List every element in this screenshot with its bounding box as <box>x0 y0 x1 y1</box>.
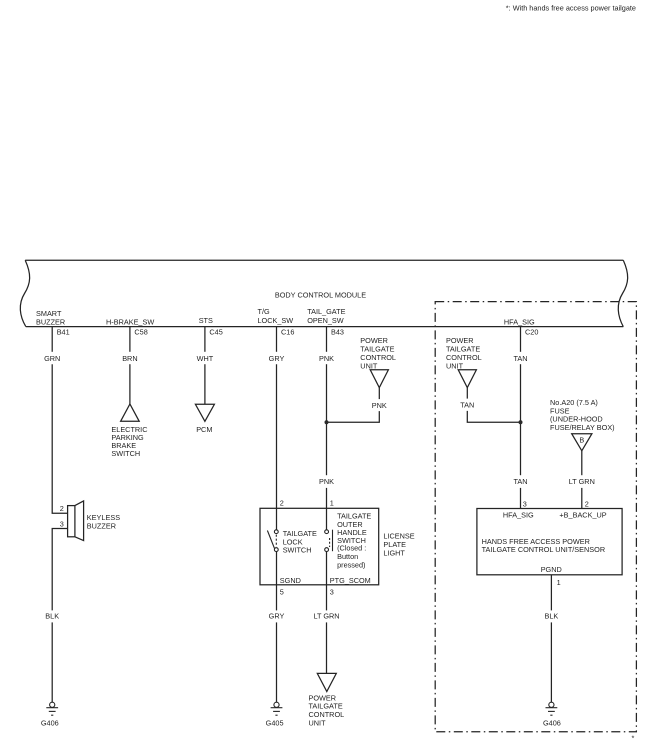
svg-text:GRY: GRY <box>269 354 285 363</box>
license plate light box <box>260 508 379 585</box>
svg-text:BLK: BLK <box>545 611 559 620</box>
wire W8 segment into HFA box <box>581 488 583 509</box>
svg-text:TAN: TAN <box>460 401 474 410</box>
wire W4 lower segment to ground <box>276 622 278 702</box>
wire W3 lower segment <box>204 364 206 404</box>
body control module band outline <box>20 260 627 327</box>
junction dot on W6 <box>519 420 523 424</box>
svg-text:SGND: SGND <box>280 576 301 585</box>
wire W1 segment down to keyless buzzer pin 2 <box>52 364 67 513</box>
svg-text:G406: G406 <box>41 719 59 728</box>
svg-text:GRY: GRY <box>269 611 285 620</box>
svg-text:2: 2 <box>585 499 589 508</box>
off-page triangle to electric parking brake switch <box>121 404 140 421</box>
svg-text:3: 3 <box>523 499 527 508</box>
tailgate outer handle switch contacts <box>325 530 333 552</box>
svg-text:OPEN_SW: OPEN_SW <box>307 316 344 325</box>
hands free access power tailgate control unit box <box>477 509 622 575</box>
ground G406 left symbol <box>46 702 58 715</box>
svg-text:BUZZER: BUZZER <box>36 317 65 326</box>
svg-text:B: B <box>579 436 584 445</box>
svg-text:TAN: TAN <box>513 477 527 486</box>
wire W4 segment down to license plate light box <box>276 364 278 530</box>
branch wire to junction <box>327 411 380 422</box>
svg-text:PNK: PNK <box>319 354 334 363</box>
svg-text:pressed): pressed) <box>337 561 365 570</box>
svg-text:TAILGATE CONTROL UNIT/SENSOR: TAILGATE CONTROL UNIT/SENSOR <box>482 545 606 554</box>
wire W5 lower segment to triangle <box>326 622 328 673</box>
svg-text:2: 2 <box>60 504 64 513</box>
wire W6 upper segment from C20 <box>520 327 522 352</box>
branch wire from triangle <box>378 388 380 400</box>
wire W5 segment to junction <box>326 364 328 475</box>
svg-text:UNIT: UNIT <box>309 718 327 727</box>
wire W5 segment into license plate light box <box>326 488 328 530</box>
svg-text:LOCK_SW: LOCK_SW <box>258 316 294 325</box>
wire W9 lower segment to ground <box>550 622 552 702</box>
svg-text:BLK: BLK <box>45 611 59 620</box>
wire W3 upper segment from C45 <box>204 327 206 352</box>
svg-text:LT GRN: LT GRN <box>313 611 339 620</box>
svg-text:PCM: PCM <box>196 425 212 434</box>
svg-text:*: * <box>632 734 635 743</box>
switch internal wire right <box>326 552 328 585</box>
wire W9 below HFA box <box>550 575 552 611</box>
wire W1 lower segment to ground <box>51 622 53 702</box>
tailgate lock switch contacts <box>267 530 278 552</box>
svg-text:BUZZER: BUZZER <box>87 522 116 531</box>
wire W5 upper segment from B43 <box>326 327 328 352</box>
svg-text:G406: G406 <box>543 719 561 728</box>
svg-text:FUSE/RELAY BOX): FUSE/RELAY BOX) <box>550 423 615 432</box>
off-page triangle to PCM <box>195 404 214 421</box>
svg-text:B43: B43 <box>331 327 344 336</box>
wire W1 segment from buzzer pin 3 down <box>52 529 67 611</box>
svg-text:STS: STS <box>199 316 213 325</box>
svg-text:PNK: PNK <box>372 401 387 410</box>
ground G405 symbol <box>271 702 283 715</box>
svg-text:B41: B41 <box>57 327 70 336</box>
svg-text:1: 1 <box>557 578 561 587</box>
svg-text:HFA_SIG: HFA_SIG <box>503 511 534 520</box>
wire W6 segment into HFA box <box>520 488 522 509</box>
junction dot on W5 <box>325 420 329 424</box>
svg-text:5: 5 <box>280 588 284 597</box>
wire W1 upper segment from B41 <box>51 327 53 352</box>
svg-text:2: 2 <box>280 498 284 507</box>
svg-text:C45: C45 <box>209 327 222 336</box>
ground G406 right symbol <box>546 702 558 715</box>
svg-text:C16: C16 <box>281 327 294 336</box>
branch wire from triangle HFA <box>466 388 468 399</box>
svg-text:TAIL_GATE: TAIL_GATE <box>307 307 345 316</box>
wire W2 upper segment from C58 <box>129 327 131 352</box>
off-page triangle B from fuse <box>572 434 592 451</box>
svg-text:C58: C58 <box>134 327 147 336</box>
svg-text:SWITCH: SWITCH <box>283 546 312 555</box>
wire W6 segment to junction <box>520 364 522 475</box>
svg-text:BODY CONTROL MODULE: BODY CONTROL MODULE <box>275 290 366 299</box>
svg-text:GRN: GRN <box>44 354 60 363</box>
off-page triangle from power tailgate control unit <box>370 370 388 388</box>
svg-text:1: 1 <box>330 498 334 507</box>
svg-text:+B_BACK_UP: +B_BACK_UP <box>559 511 606 520</box>
HFA dash-dot boundary box <box>435 302 636 732</box>
wire W4 below box <box>276 585 278 611</box>
svg-text:3: 3 <box>330 588 334 597</box>
wire W4 upper segment from C16 <box>276 327 278 352</box>
off-page triangle from power tailgate control unit HFA branch <box>458 370 476 388</box>
svg-text:PGND: PGND <box>541 565 562 574</box>
svg-text:PNK: PNK <box>319 477 334 486</box>
svg-text:LT GRN: LT GRN <box>569 477 595 486</box>
svg-text:H-BRAKE_SW: H-BRAKE_SW <box>106 317 154 326</box>
wire W2 lower segment <box>129 364 131 404</box>
svg-text:3: 3 <box>60 519 64 528</box>
off-page triangle to power tailgate control unit lower <box>317 673 336 691</box>
svg-text:TAN: TAN <box>513 354 527 363</box>
svg-text:*: With hands free access powe: *: With hands free access power tailgate <box>506 4 636 13</box>
svg-text:PTG_SCOM: PTG_SCOM <box>330 576 371 585</box>
svg-text:SWITCH: SWITCH <box>111 449 140 458</box>
svg-text:LIGHT: LIGHT <box>383 548 405 557</box>
wire W8 from fuse triangle <box>581 451 583 475</box>
branch wire to junction HFA <box>467 411 520 422</box>
svg-text:C20: C20 <box>525 327 538 336</box>
keyless buzzer speaker symbol <box>68 501 84 541</box>
svg-text:T/G: T/G <box>258 307 270 316</box>
svg-text:WHT: WHT <box>197 354 214 363</box>
svg-text:HFA_SIG: HFA_SIG <box>504 317 535 326</box>
switch internal wires inside box <box>276 552 278 585</box>
wire W5 below box <box>326 585 328 611</box>
svg-text:G405: G405 <box>266 719 284 728</box>
svg-text:BRN: BRN <box>122 354 137 363</box>
